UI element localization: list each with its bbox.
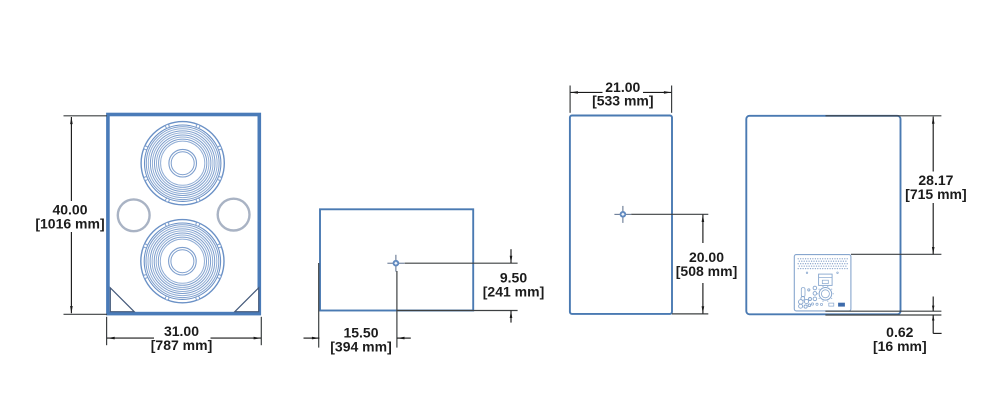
svg-text:[715 mm]: [715 mm]: [905, 186, 966, 202]
svg-text:[241 mm]: [241 mm]: [483, 284, 544, 300]
svg-text:[394 mm]: [394 mm]: [330, 338, 391, 354]
svg-text:[1016 mm]: [1016 mm]: [35, 216, 104, 232]
svg-text:[16 mm]: [16 mm]: [873, 338, 927, 354]
svg-text:[533 mm]: [533 mm]: [592, 93, 653, 109]
svg-text:[787 mm]: [787 mm]: [151, 337, 212, 353]
svg-text:[508 mm]: [508 mm]: [676, 263, 737, 279]
